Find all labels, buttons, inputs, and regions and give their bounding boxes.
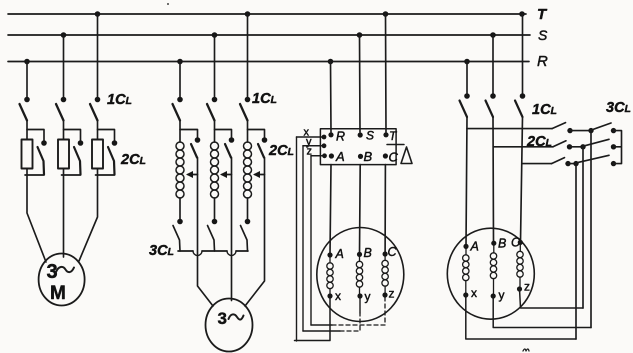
wire: star bar xyxy=(614,131,622,164)
winding M4-B xyxy=(490,246,496,293)
svg-text:C: C xyxy=(511,236,521,250)
svg-text:2CL: 2CL xyxy=(120,152,146,168)
resistor R3 xyxy=(92,140,103,169)
wire: y stub xyxy=(303,145,324,147)
wire: M4 x to riser X xyxy=(466,295,576,339)
wire: G1 motor lead 2 xyxy=(63,175,65,257)
wire: G2 phase R drop xyxy=(179,62,181,98)
wire: riser Z (row1) xyxy=(590,131,592,328)
contact 3CL pole 1 (group 2) xyxy=(173,226,180,252)
wire: G4 phase A to motor xyxy=(466,117,467,246)
node: bus S taps xyxy=(61,32,496,38)
wire: z riser xyxy=(310,156,312,325)
svg-text:R: R xyxy=(336,130,345,144)
contact 1CL pole 3 xyxy=(90,104,98,121)
contact 1CL pole 2 (group 4) xyxy=(486,101,494,118)
svg-text:x: x xyxy=(335,289,341,303)
contact 2CL pole 1 xyxy=(38,147,45,175)
wire: G2 phase S drop xyxy=(214,35,216,97)
contact 2CL pole 2 (group 4) xyxy=(553,141,566,147)
node: M3 winding tops A B C xyxy=(327,251,387,257)
node: bus R taps xyxy=(24,59,470,65)
wire: G2 coil tail 3 xyxy=(247,198,249,219)
wire: y riser xyxy=(302,146,304,331)
wire: G1 phase R drop xyxy=(26,62,28,98)
winding M3-C xyxy=(382,257,388,293)
wire: G1 below resistor 3 xyxy=(96,169,115,176)
svg-text:B: B xyxy=(364,149,373,164)
wire: G3 phase R drop xyxy=(330,62,333,133)
node: box top terminals R S T xyxy=(328,132,388,137)
motor M2 xyxy=(206,299,253,352)
wire: G4 phase T drop xyxy=(522,14,524,94)
node: M4 winding tops A B C xyxy=(463,240,523,249)
svg-text:B: B xyxy=(364,246,372,260)
svg-text:A: A xyxy=(335,247,344,261)
contact 1CL pole 2 xyxy=(56,104,64,121)
tap arrow 1 xyxy=(188,174,198,176)
node: G1 contact terminals xyxy=(24,97,100,103)
wire: G1 motor lead 3 xyxy=(79,175,98,261)
svg-text:C: C xyxy=(389,150,399,165)
wire: G3 phase T drop xyxy=(385,14,388,132)
bus R xyxy=(8,61,529,63)
stray mark bottom xyxy=(523,349,529,351)
wire: M4 z to riser Y xyxy=(520,289,584,308)
svg-text:x: x xyxy=(471,286,477,300)
wire: G1 bypass arm 2 xyxy=(64,130,81,141)
wire: box B to motor xyxy=(359,165,362,255)
wire: G4 phase C to motor xyxy=(521,117,523,242)
wire: row1 link xyxy=(570,130,591,132)
wire: G1 branch 3 to junction xyxy=(97,121,99,140)
node: M4 winding bottoms x y z xyxy=(463,286,522,298)
svg-text:2CL: 2CL xyxy=(268,143,294,159)
node: box bottom terminals A B C xyxy=(329,153,388,159)
tap arrow 3 xyxy=(255,174,265,176)
wire: G4 phase B to motor xyxy=(492,117,495,243)
contact 3CL pole 2 (group 4) xyxy=(585,139,610,146)
contact 3CL pole 2 (group 2) xyxy=(208,226,215,252)
wire: y return route xyxy=(303,330,340,332)
tap arrow 2 xyxy=(222,174,232,176)
wire: 2CL row 3 feed xyxy=(522,163,552,165)
node: 3CL fixed terminals xyxy=(611,128,616,166)
delta symbol xyxy=(401,147,412,164)
winding M3-B xyxy=(356,257,362,294)
wire: G2 run lead 1 xyxy=(198,158,214,307)
reactor coil L3 xyxy=(244,142,252,198)
bus S xyxy=(8,34,530,36)
resistor R1 xyxy=(22,140,33,169)
wire: G2 branch 2 xyxy=(214,121,216,143)
wire: G1 phase T drop xyxy=(97,14,99,97)
winding M4-C xyxy=(517,245,523,287)
svg-text:1CL: 1CL xyxy=(107,92,132,108)
resistor R2 xyxy=(58,140,69,169)
svg-text:C: C xyxy=(388,245,398,259)
ink speck xyxy=(167,3,169,5)
contact 1CL pole 2 (group 2) xyxy=(207,104,215,121)
wire: box A to motor xyxy=(330,165,331,255)
wire: G1 motor lead 1 xyxy=(27,175,46,262)
contact 1CL pole 3 (group 2) xyxy=(240,104,248,121)
contact 2CL pole 2 xyxy=(74,147,81,175)
wire: 2CL row 1 feed xyxy=(467,128,552,130)
contact 2CL pole 3 xyxy=(108,147,115,175)
svg-text:S: S xyxy=(366,129,374,143)
node: G1 bypass contact terminals xyxy=(41,140,117,146)
node: M3 winding bottoms x y z xyxy=(327,292,387,298)
svg-text:z: z xyxy=(524,280,530,294)
svg-text:1CL: 1CL xyxy=(252,91,277,107)
contact 1CL pole 1 (group 2) xyxy=(173,104,181,121)
motor M1 xyxy=(39,254,85,306)
motor M4 xyxy=(447,228,534,319)
wire: row3 link xyxy=(568,163,576,165)
wire: riser Y (row2) xyxy=(582,147,584,308)
contact 2CL pole 3 (group 4) xyxy=(552,158,565,164)
wire: G1 branch 2 to junction xyxy=(63,121,65,140)
wire: G2 phase T drop xyxy=(247,14,249,97)
wire: G2 bypass arm 3 xyxy=(248,130,265,138)
wire: G2 coil tail 2 xyxy=(214,198,216,219)
wire: G1 bypass arm 1 xyxy=(27,130,44,141)
reactor coil L2 xyxy=(211,142,219,198)
wire: G4 phase S drop xyxy=(492,35,494,94)
svg-text:3CL: 3CL xyxy=(606,100,631,116)
svg-text:z: z xyxy=(389,287,395,301)
contact 2CL pole 2 (group 2) xyxy=(225,144,231,158)
svg-text:A: A xyxy=(470,240,479,254)
wire: T stub to delta xyxy=(387,144,404,146)
svg-text:y: y xyxy=(365,290,371,304)
node: stub terminals xyxy=(322,135,327,159)
svg-text:y: y xyxy=(499,288,505,302)
wire: riser X (row3) xyxy=(575,164,577,339)
wire: x return route xyxy=(295,298,331,341)
wire: x stub xyxy=(297,136,325,138)
wire: M4 y to riser Z xyxy=(493,296,591,328)
reactor coil L1 xyxy=(176,142,184,198)
svg-text:2CL: 2CL xyxy=(526,134,552,150)
wire: G2 star bar with hops xyxy=(178,250,248,252)
contact 1CL pole 3 (group 4) xyxy=(515,101,523,118)
wire: G2 bypass arm 2 xyxy=(215,130,232,138)
contact 1CL pole 1 xyxy=(20,104,28,121)
wire: G1 phase S drop xyxy=(63,35,65,97)
wire: G1 branch 1 to junction xyxy=(26,121,28,140)
svg-text:S: S xyxy=(538,27,548,43)
wire: G3 phase S drop xyxy=(359,35,362,132)
node: G2 contact terminals xyxy=(177,97,250,103)
contact 2CL pole 1 (group 4) xyxy=(552,123,566,129)
winding M3-A xyxy=(327,258,333,295)
wire: G2 bypass arm 1 xyxy=(180,130,198,138)
node: bus T taps xyxy=(95,11,525,17)
wire: G2 coil tail 1 xyxy=(179,198,181,219)
svg-text:A: A xyxy=(335,149,345,164)
terminal box TB1 xyxy=(320,129,396,165)
wire: G2 branch 1 xyxy=(179,121,181,143)
wire: G1 below resistor 1 xyxy=(25,169,44,176)
svg-text:1CL: 1CL xyxy=(532,102,557,118)
contact 1CL pole 1 (group 4) xyxy=(460,101,468,118)
node: riser junctions xyxy=(573,128,593,166)
wire: 2CL row 2 feed xyxy=(493,146,553,148)
wire: x riser xyxy=(296,137,298,341)
wire: z stub xyxy=(311,155,325,157)
wire: box C to motor xyxy=(384,165,386,254)
svg-text:R: R xyxy=(537,53,548,70)
wire: G1 bypass arm 3 xyxy=(98,130,115,141)
node: 2CL fixed terminals xyxy=(565,128,572,166)
wire: G1 below resistor 2 xyxy=(62,169,81,176)
node: G2 star contact terminals xyxy=(177,219,250,225)
motor M3 xyxy=(317,228,404,322)
node: G2 bypass terminals xyxy=(195,137,268,143)
wire: G2 branch 3 xyxy=(247,121,249,143)
wire: G2 run lead 2 xyxy=(231,158,233,301)
bus T xyxy=(8,13,526,15)
svg-text:T: T xyxy=(537,6,548,23)
wire: z return route xyxy=(311,324,332,326)
contact 3CL pole 3 (group 2) xyxy=(241,226,248,252)
wire: row2 link xyxy=(570,146,584,148)
contact 2CL pole 3 (group 2) xyxy=(258,144,264,158)
contact 3CL pole 1 (group 4) xyxy=(593,123,612,130)
node: G4 contact terminals xyxy=(464,93,525,99)
winding M4-A xyxy=(463,249,469,293)
svg-text:B: B xyxy=(498,237,506,251)
contact 2CL pole 1 (group 2) xyxy=(191,144,197,158)
svg-text:3CL: 3CL xyxy=(149,243,174,259)
contact 3CL pole 3 (group 4) xyxy=(578,155,610,162)
svg-text:3: 3 xyxy=(218,309,227,328)
wire: G2 run lead 3 xyxy=(245,158,265,307)
wire: G4 phase R drop xyxy=(466,62,468,94)
svg-text:M: M xyxy=(50,283,66,304)
